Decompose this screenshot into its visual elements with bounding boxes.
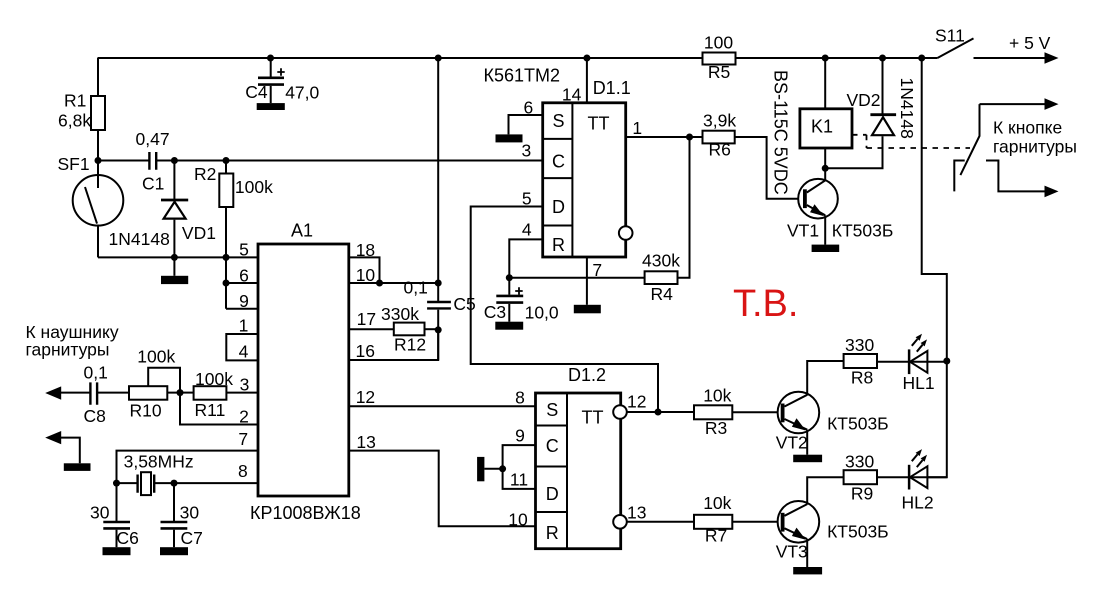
svg-text:5: 5 — [522, 189, 532, 209]
svg-text:R9: R9 — [851, 484, 873, 504]
svg-text:17: 17 — [357, 309, 376, 329]
resistor R2 100k — [225, 161, 227, 174]
node D1.1 pin14 rail junction — [583, 55, 590, 62]
node SF1 top — [95, 157, 102, 164]
svg-text:10: 10 — [356, 265, 376, 285]
svg-text:8: 8 — [515, 388, 525, 408]
ground arrow2 — [64, 463, 91, 471]
svg-text:0,47: 0,47 — [136, 129, 170, 149]
svg-text:18: 18 — [356, 240, 375, 260]
wire arrow2 to ground — [45, 431, 61, 444]
resistor R3 10k — [694, 405, 732, 419]
node R2 bottom — [223, 254, 230, 261]
svg-text:S: S — [552, 111, 564, 131]
node R2 top — [223, 157, 230, 164]
svg-text:30: 30 — [180, 503, 200, 523]
wire R6 to VT1 base — [735, 137, 798, 199]
transistor VT1 КТ503Б — [798, 179, 838, 219]
svg-text:10k: 10k — [703, 386, 731, 406]
node C5 rail junction — [435, 55, 442, 62]
pin 6 wire to ground — [509, 115, 543, 134]
wire earphone arrow left — [45, 386, 61, 399]
capacitor C8 0,1 — [90, 382, 97, 404]
pin 1 wire — [626, 136, 703, 138]
node VD1 top — [171, 157, 178, 164]
ground VD1 — [173, 257, 175, 275]
svg-text:КТ503Б: КТ503Б — [827, 522, 889, 542]
node C4 rail junction — [267, 55, 274, 62]
svg-text:S: S — [546, 400, 558, 420]
svg-text:0,1: 0,1 — [84, 363, 108, 383]
svg-text:330: 330 — [845, 452, 874, 472]
node C3/R4 junction — [506, 274, 513, 281]
node pin10/18 junction — [376, 280, 383, 287]
wire R3 to VT2 base — [732, 411, 778, 413]
svg-text:R10: R10 — [130, 401, 162, 421]
svg-text:HL1: HL1 — [903, 373, 935, 393]
svg-text:C7: C7 — [181, 528, 203, 548]
svg-text:D: D — [546, 484, 559, 504]
svg-text:330k: 330k — [381, 304, 419, 324]
svg-text:100k: 100k — [137, 347, 175, 367]
svg-text:R3: R3 — [705, 418, 727, 438]
svg-text:гарнитуры: гарнитуры — [26, 340, 110, 360]
wire K1 to VT1 collector — [824, 148, 826, 180]
pin 13 wire to D1.2 pin 10 — [349, 451, 536, 527]
pin 16 wire — [349, 330, 438, 360]
node crystal left — [113, 480, 120, 487]
svg-text:R7: R7 — [705, 526, 727, 546]
wire node to A1 pin2 — [180, 393, 258, 425]
transistor VT3 КТ503Б — [778, 501, 820, 543]
ground pin6 — [496, 134, 523, 142]
svg-text:R1: R1 — [64, 91, 86, 111]
svg-text:13: 13 — [356, 432, 375, 452]
svg-text:К561ТМ2: К561ТМ2 — [484, 66, 561, 86]
wire A1 pin7 to crystal — [117, 451, 259, 484]
svg-text:10,0: 10,0 — [525, 303, 559, 323]
dashed relay actuation link — [852, 135, 970, 148]
relay K1 BS-115C 5VDC — [824, 58, 826, 109]
svg-text:1N4148: 1N4148 — [897, 78, 917, 139]
wire +5V rail right segment — [736, 57, 938, 59]
svg-text:R12: R12 — [394, 335, 426, 355]
svg-text:6: 6 — [524, 98, 534, 118]
svg-text:K1: K1 — [811, 117, 833, 137]
microphone SF1 — [73, 175, 124, 226]
svg-text:C6: C6 — [117, 528, 139, 548]
svg-text:13: 13 — [627, 503, 646, 523]
diode VD1 1N4148 — [173, 161, 175, 200]
crystal ZQ 3,58MHz — [138, 475, 155, 493]
ground C3 — [495, 322, 523, 330]
ground pin7 — [574, 305, 601, 314]
svg-text:2: 2 — [239, 407, 249, 427]
ground VT3 — [793, 567, 822, 574]
svg-text:5: 5 — [239, 239, 249, 259]
resistor R11 100k — [180, 392, 194, 394]
svg-text:КТ503Б: КТ503Б — [832, 221, 894, 241]
svg-text:R6: R6 — [709, 140, 731, 160]
node S11 rail junction — [918, 55, 925, 62]
resistor R6 3,9k — [703, 131, 735, 144]
svg-text:D: D — [552, 197, 565, 217]
svg-text:R8: R8 — [851, 368, 873, 388]
pin 1 wire and jumper to pin 4 — [226, 334, 258, 360]
wire audio line y160 — [98, 160, 543, 162]
node D1.2 output junction — [655, 409, 662, 416]
IC D1.1 К561ТМ2 trigger — [543, 103, 626, 257]
wire pins 5-6-9 tie — [226, 257, 258, 308]
wire +5V output arrow — [974, 57, 1047, 59]
pin 10 wire — [349, 282, 438, 284]
node R12 right junction — [435, 326, 442, 333]
svg-text:R2: R2 — [194, 164, 216, 184]
wire pin13 to R7 — [627, 521, 694, 523]
wire R7 to VT3 base — [732, 521, 778, 523]
diode VD2 1N4148 — [882, 58, 884, 114]
IC A1 КР1008ВЖ18 — [258, 244, 349, 496]
ground VT1 — [812, 245, 840, 252]
svg-text:TT: TT — [582, 408, 604, 428]
resistor R10 100k with tap — [129, 386, 167, 400]
node R4/pin1 junction — [686, 134, 693, 141]
svg-text:C3: C3 — [484, 302, 506, 322]
ground C7 — [160, 547, 188, 555]
svg-text:VT2: VT2 — [776, 433, 808, 453]
wire SF1 bottom to A1 pin5 — [98, 256, 258, 258]
node R10/R11 junction — [177, 389, 184, 396]
svg-text:0,1: 0,1 — [404, 278, 428, 298]
wire +5V rail left segment — [98, 57, 703, 59]
svg-text:гарнитуры: гарнитуры — [993, 137, 1077, 157]
resistor R8 330 — [844, 354, 877, 368]
node VD2 rail junction — [879, 55, 886, 62]
svg-text:6,8k: 6,8k — [58, 111, 91, 131]
node K1/VD2 bottom junction — [822, 165, 829, 172]
svg-text:11: 11 — [510, 470, 528, 490]
capacitor C7 30 — [173, 483, 175, 521]
svg-text:1N4148: 1N4148 — [109, 229, 170, 249]
svg-text:D1.1: D1.1 — [593, 78, 631, 98]
svg-text:4: 4 — [522, 220, 532, 240]
svg-text:S11: S11 — [935, 26, 965, 46]
headset button top arrow — [980, 103, 1047, 105]
svg-text:3: 3 — [522, 141, 532, 161]
resistor R1 6,8k — [97, 58, 99, 96]
svg-text:BS-115C 5VDC: BS-115C 5VDC — [771, 70, 791, 195]
svg-text:12: 12 — [627, 392, 646, 412]
svg-text:10: 10 — [508, 510, 528, 530]
node crystal right — [171, 480, 178, 487]
inversion bubble pin 13 — [613, 515, 627, 529]
svg-text:TT: TT — [588, 114, 610, 134]
svg-text:R: R — [552, 235, 565, 255]
pin 7 wire to ground — [586, 257, 588, 305]
capacitor C6 30 — [116, 483, 118, 521]
svg-text:9: 9 — [515, 426, 525, 446]
ground C4 — [257, 103, 285, 110]
svg-text:12: 12 — [356, 387, 375, 407]
wire right branch S11 down — [922, 58, 947, 361]
ground C6 — [103, 547, 131, 555]
svg-text:30: 30 — [90, 503, 110, 523]
wire HL1 node down to HL2 — [927, 362, 946, 477]
svg-text:Т.В.: Т.В. — [733, 283, 798, 325]
pin 14 wire — [586, 58, 588, 103]
inversion bubble D1.1 — [619, 226, 633, 240]
pin 17 wire — [349, 328, 394, 330]
capacitor C3 10,0 — [508, 278, 510, 295]
svg-text:8: 8 — [238, 461, 248, 481]
svg-text:C4: C4 — [245, 82, 268, 102]
svg-text:7: 7 — [592, 260, 602, 280]
svg-text:R4: R4 — [651, 284, 674, 304]
wire C8 to R10 — [97, 392, 129, 394]
svg-text:C: C — [546, 436, 559, 456]
capacitor C1 0,47 — [149, 152, 156, 170]
node pin6 junction — [223, 280, 230, 287]
svg-text:+ 5 V: + 5 V — [1009, 33, 1051, 53]
svg-text:14: 14 — [562, 85, 582, 105]
pin 4 wire — [509, 239, 542, 277]
wire VT3 collector to R9 — [807, 477, 843, 504]
capacitor C5 0,1 — [437, 58, 439, 301]
svg-text:C8: C8 — [84, 406, 106, 426]
capacitor C4 47,0 — [270, 58, 272, 77]
pin 12 wire to D1.2 pin 8 — [349, 405, 536, 407]
node VD1 bottom — [171, 254, 178, 261]
svg-text:3: 3 — [240, 375, 250, 395]
svg-text:R: R — [546, 523, 559, 543]
svg-text:6: 6 — [239, 266, 249, 286]
resistor R9 330 — [844, 470, 877, 484]
svg-text:C5: C5 — [453, 294, 475, 314]
svg-text:C1: C1 — [142, 174, 164, 194]
svg-text:SF1: SF1 — [58, 154, 90, 174]
svg-text:D1.2: D1.2 — [568, 365, 606, 385]
svg-text:9: 9 — [239, 291, 249, 311]
LED HL1 — [910, 351, 927, 373]
LED HL2 — [910, 466, 927, 488]
switch S11 — [937, 38, 973, 58]
pin 18 wire and jumper to pin 10 — [349, 257, 380, 283]
node pin9/11 junction — [499, 465, 506, 472]
ground VT2 — [793, 455, 822, 463]
svg-text:A1: A1 — [291, 221, 313, 241]
svg-text:VT3: VT3 — [776, 542, 808, 562]
svg-text:47,0: 47,0 — [285, 83, 319, 103]
svg-text:3,58MHz: 3,58MHz — [124, 452, 194, 472]
svg-text:330: 330 — [845, 335, 874, 355]
svg-text:К кнопке: К кнопке — [993, 118, 1062, 138]
svg-text:VD1: VD1 — [182, 223, 216, 243]
resistor R12 330k — [394, 323, 425, 336]
node C5 top junction — [435, 280, 442, 287]
svg-text:7: 7 — [238, 429, 248, 449]
transistor VT2 КТ503Б — [778, 392, 820, 434]
svg-text:R5: R5 — [708, 62, 730, 82]
svg-text:КР1008ВЖ18: КР1008ВЖ18 — [250, 503, 361, 523]
svg-text:16: 16 — [356, 341, 375, 361]
svg-text:100k: 100k — [235, 177, 273, 197]
resistor R5 — [703, 53, 736, 65]
svg-text:1: 1 — [632, 118, 642, 138]
svg-text:C: C — [552, 152, 565, 172]
svg-text:HL2: HL2 — [902, 493, 934, 513]
resistor R7 10k — [694, 515, 732, 529]
svg-text:R11: R11 — [195, 400, 226, 420]
resistor R4 430k — [509, 277, 644, 279]
svg-text:10k: 10k — [703, 493, 731, 513]
svg-text:100k: 100k — [195, 369, 233, 389]
svg-text:100: 100 — [704, 33, 733, 53]
node HL1 junction — [943, 358, 950, 365]
pin 11 wire — [503, 469, 536, 489]
svg-text:4: 4 — [239, 342, 249, 362]
svg-text:1: 1 — [239, 316, 249, 336]
node K1 rail junction — [822, 55, 829, 62]
svg-text:VT1: VT1 — [787, 221, 819, 241]
ground bar pins 9-11 — [484, 468, 502, 470]
svg-text:КТ503Б: КТ503Б — [827, 414, 889, 434]
wire pin12 to node — [627, 411, 694, 413]
svg-text:3,9k: 3,9k — [703, 111, 736, 131]
svg-text:430k: 430k — [642, 251, 680, 271]
wire crystal row to A1 pin8 — [117, 482, 259, 484]
wire VT2 collector to R8 — [807, 361, 843, 395]
svg-text:VD2: VD2 — [847, 90, 881, 110]
pin 5 wire feedback from D1.2 — [471, 207, 658, 413]
pin 9 wire — [503, 445, 536, 469]
inversion bubble pin 12 — [613, 405, 627, 419]
headset button switch — [960, 104, 979, 175]
IC D1.2 trigger — [536, 393, 621, 549]
